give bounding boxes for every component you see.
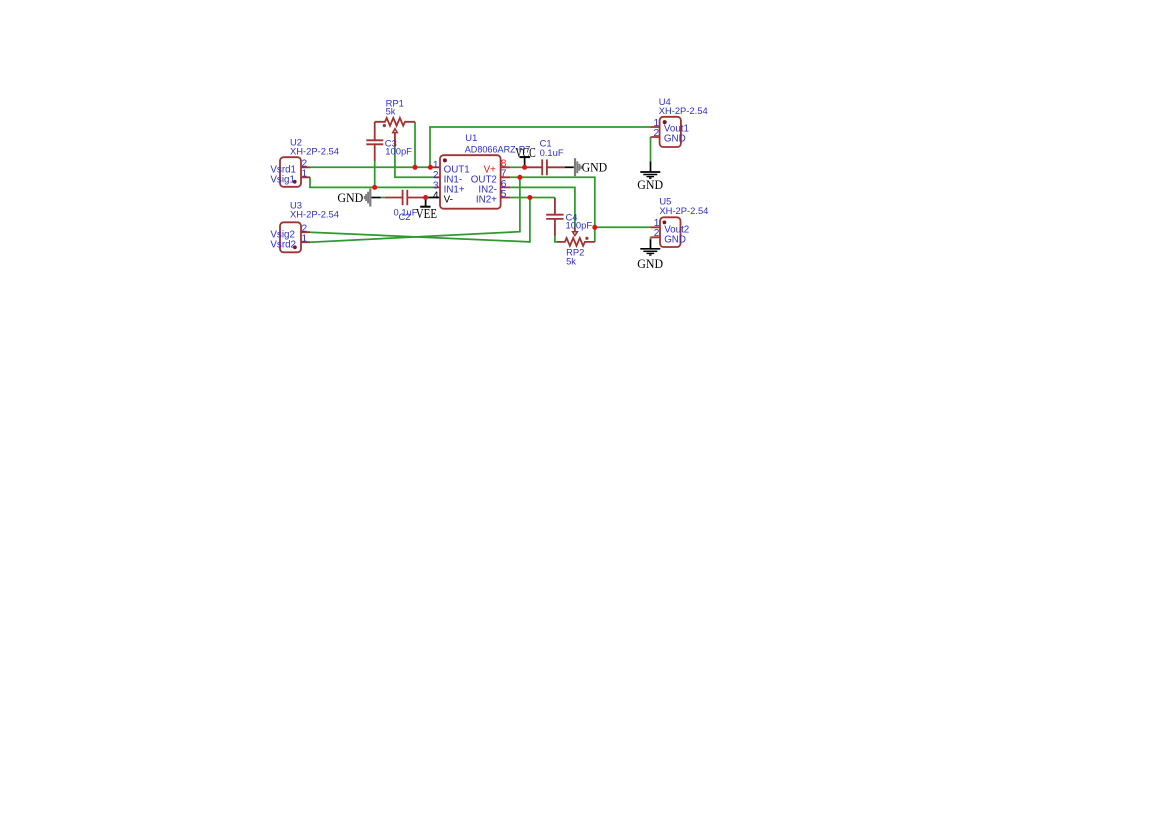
svg-text:5: 5 xyxy=(501,189,507,200)
svg-text:XH-2P-2.54: XH-2P-2.54 xyxy=(659,205,708,216)
svg-text:GND: GND xyxy=(664,234,686,245)
svg-text:XH-2P-2.54: XH-2P-2.54 xyxy=(290,146,339,157)
svg-text:C2: C2 xyxy=(399,211,411,222)
svg-text:GND: GND xyxy=(637,177,663,192)
svg-text:2: 2 xyxy=(654,128,660,139)
svg-text:Vsig1: Vsig1 xyxy=(270,174,295,185)
svg-text:5k: 5k xyxy=(566,255,576,266)
svg-text:XH-2P-2.54: XH-2P-2.54 xyxy=(290,209,339,220)
svg-text:GND: GND xyxy=(664,134,686,145)
svg-text:GND: GND xyxy=(582,160,608,175)
svg-text:U1: U1 xyxy=(465,132,477,143)
svg-text:V-: V- xyxy=(444,195,453,206)
svg-text:VCC: VCC xyxy=(515,146,535,161)
svg-text:GND: GND xyxy=(637,256,663,271)
svg-text:0.1uF: 0.1uF xyxy=(540,147,564,158)
svg-text:GND: GND xyxy=(337,190,363,205)
svg-text:5k: 5k xyxy=(386,106,396,117)
svg-text:VEE: VEE xyxy=(416,207,437,222)
svg-text:XH-2P-2.54: XH-2P-2.54 xyxy=(659,105,708,116)
svg-text:IN2+: IN2+ xyxy=(476,195,497,206)
svg-text:1: 1 xyxy=(302,169,308,180)
svg-text:100pF: 100pF xyxy=(566,220,593,231)
svg-text:100pF: 100pF xyxy=(385,146,412,157)
svg-text:Vsrd2: Vsrd2 xyxy=(270,239,296,250)
svg-text:2: 2 xyxy=(654,228,660,239)
svg-text:4: 4 xyxy=(433,190,439,201)
svg-text:1: 1 xyxy=(302,234,308,245)
